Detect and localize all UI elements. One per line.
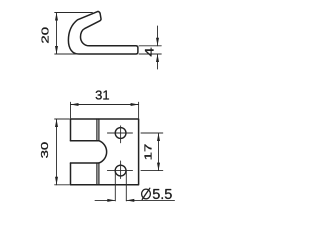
- dim 30: arrow down: [55, 177, 58, 185]
- slot round end arc: [99, 141, 107, 163]
- dia 5.5: right tail: [126, 199, 174, 201]
- dim 17: arrow up: [157, 133, 160, 141]
- hole lower circle: [115, 165, 126, 176]
- dia 5.5: right arrow: [126, 199, 134, 202]
- dim 17: dimension line: [158, 133, 160, 171]
- svg-text:17: 17: [142, 144, 154, 161]
- side view: hook profile outline: [68, 11, 137, 54]
- dim 4: extension line bottom: [139, 53, 161, 55]
- slot top edge: [71, 140, 99, 142]
- bend line 2 lower: [98, 163, 100, 185]
- dia 5.5: extension line right: [125, 171, 127, 201]
- dim 20: arrow up: [55, 13, 58, 21]
- dia 5.5: left arrow: [107, 199, 115, 202]
- hole lower centerline horizontal: [107, 170, 132, 172]
- slot bottom edge: [71, 162, 99, 164]
- dim 31: arrow right: [131, 103, 139, 106]
- dim 20: extension line bottom: [55, 53, 79, 55]
- hole lower centerline vertical: [120, 161, 122, 179]
- dim 30: extension line top: [55, 118, 70, 120]
- svg-text:4: 4: [144, 47, 157, 56]
- dim 20: arrow down: [55, 46, 58, 54]
- dia 5.5: extension line left: [114, 171, 116, 201]
- dim 20: dimension line: [56, 13, 58, 55]
- svg-text:20: 20: [39, 27, 51, 44]
- dim 20: extension line top: [55, 12, 93, 14]
- svg-text:31: 31: [95, 87, 109, 102]
- dim 17: extension line top: [141, 132, 163, 134]
- dim 30: arrow up: [55, 119, 58, 127]
- dim 31: arrow left: [71, 103, 79, 106]
- hole upper circle: [115, 128, 126, 139]
- hole upper centerline horizontal: [107, 132, 132, 134]
- dim 31: extension line right: [138, 102, 140, 118]
- dim 30: extension line bottom: [55, 184, 70, 186]
- hole upper centerline vertical: [120, 126, 122, 143]
- svg-text:30: 30: [39, 142, 51, 159]
- dim 4: extension line top: [139, 45, 161, 47]
- dim 4: arrow up to bar bottom: [156, 54, 159, 62]
- bend line 1 lower: [96, 163, 98, 185]
- svg-text:5.5: 5.5: [152, 187, 172, 203]
- dia 5.5: diameter symbol: [142, 189, 151, 199]
- dim 30: dimension line: [56, 119, 58, 185]
- bend line 1 upper: [96, 119, 98, 141]
- front view: plate outline: [71, 119, 139, 185]
- dim 31: extension line left: [70, 102, 72, 118]
- dim 4: arrow down to bar top: [156, 38, 159, 46]
- dim 31: dimension line: [71, 104, 139, 106]
- dia 5.5: left tail with arrow: [95, 199, 115, 201]
- bend line 2 upper: [98, 119, 100, 141]
- dim 17: arrow down: [157, 163, 160, 171]
- dim 4: dimension line: [157, 26, 159, 69]
- dim 17: extension line bottom: [141, 170, 163, 172]
